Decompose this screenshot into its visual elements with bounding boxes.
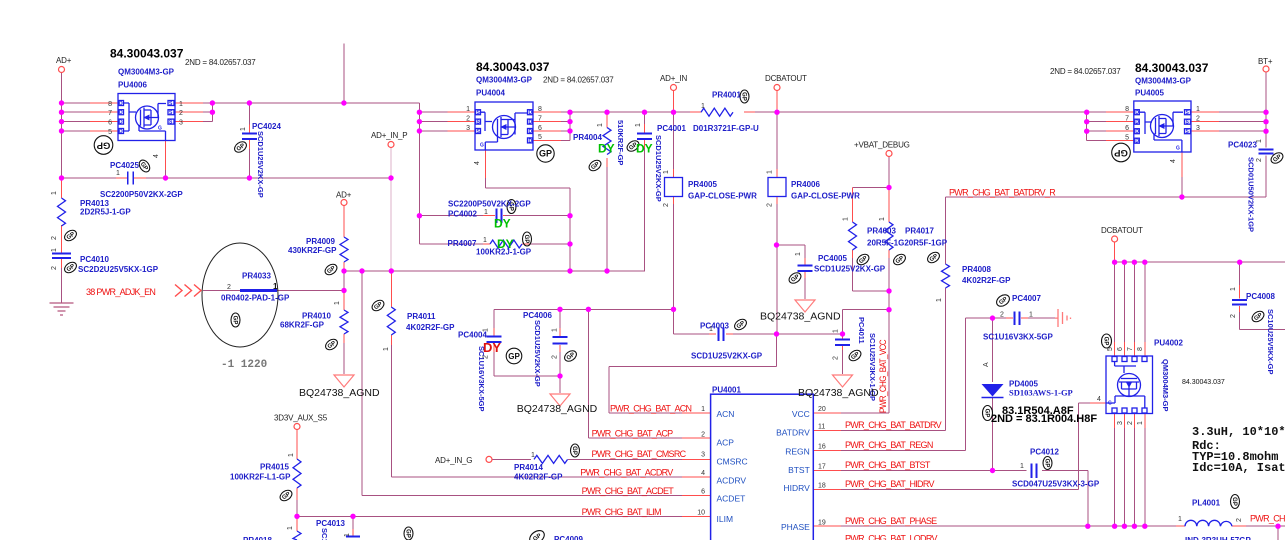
svg-text:D: D bbox=[529, 138, 533, 144]
port 3D3V_AUX_S5 bbox=[294, 424, 300, 430]
svg-text:PWR_CHG_BAT_ACDET: PWR_CHG_BAT_ACDET bbox=[582, 486, 675, 496]
svg-text:2: 2 bbox=[466, 115, 470, 122]
svg-text:6: 6 bbox=[538, 125, 542, 132]
svg-text:1: 1 bbox=[287, 526, 294, 530]
wire PC4005 branch bbox=[777, 245, 806, 299]
wire BATDRV_R rail bbox=[946, 196, 1267, 198]
stamp GP circle PC4004 bbox=[506, 348, 522, 364]
svg-text:GP: GP bbox=[741, 92, 747, 101]
svg-text:SCD1U25V2KX-GP: SCD1U25V2KX-GP bbox=[256, 131, 265, 198]
svg-text:3: 3 bbox=[701, 451, 705, 458]
svg-text:2: 2 bbox=[483, 355, 490, 359]
ground BQ24738_AGND under PC4005 bbox=[795, 300, 815, 312]
diode PD4005 bbox=[982, 384, 1004, 397]
wire PU4005 right rows bbox=[1191, 112, 1219, 131]
svg-text:PWR_CH: PWR_CH bbox=[1250, 514, 1285, 524]
svg-text:1: 1 bbox=[767, 170, 774, 174]
svg-text:D: D bbox=[529, 110, 533, 116]
svg-text:DY: DY bbox=[636, 142, 653, 156]
wire PU4006 left pin rows bbox=[62, 103, 91, 131]
svg-text:1: 1 bbox=[1178, 516, 1182, 523]
svg-text:PC4013: PC4013 bbox=[316, 519, 345, 528]
svg-text:GP: GP bbox=[984, 409, 990, 418]
wire PU4004 right stubs and tie bbox=[533, 112, 561, 140]
svg-text:BATDRV: BATDRV bbox=[776, 428, 810, 438]
svg-text:PWR_CHG_BAT_ILIM: PWR_CHG_BAT_ILIM bbox=[582, 507, 661, 517]
svg-text:BQ24738_AGND: BQ24738_AGND bbox=[517, 403, 598, 415]
S D G letters inside packages bbox=[119, 101, 1190, 407]
svg-text:PC4006: PC4006 bbox=[523, 311, 552, 320]
wire AD+_IN_P pale vertical bbox=[390, 148, 392, 272]
svg-text:3: 3 bbox=[179, 120, 183, 127]
svg-text:1: 1 bbox=[116, 170, 120, 177]
svg-text:PWR_CHG_BAT_ACN: PWR_CHG_BAT_ACN bbox=[610, 404, 692, 414]
svg-text:2ND = 84.02657.037: 2ND = 84.02657.037 bbox=[185, 58, 256, 67]
svg-text:7: 7 bbox=[538, 115, 542, 122]
svg-text:HIDRV: HIDRV bbox=[784, 483, 811, 493]
svg-text:7: 7 bbox=[1127, 347, 1134, 351]
wire PC4004/PC4006 top rail y309 bbox=[494, 308, 674, 310]
svg-text:68KR2F-GP: 68KR2F-GP bbox=[280, 321, 325, 330]
wire PR4013 PC4010 branch bbox=[61, 178, 63, 268]
port DCBATOUT bbox=[774, 85, 780, 91]
svg-text:SCD047U25V3KX-3-GP: SCD047U25V3KX-3-GP bbox=[1012, 480, 1100, 489]
svg-text:PR4008: PR4008 bbox=[962, 265, 991, 274]
wire PC4013 stub bbox=[352, 516, 354, 529]
wire CMSRC row bbox=[493, 458, 683, 460]
wire PHASE rail bbox=[813, 525, 841, 527]
wire gate rail y271 bbox=[344, 270, 645, 272]
svg-text:GP: GP bbox=[523, 235, 529, 244]
svg-text:PC4024: PC4024 bbox=[252, 122, 281, 131]
svg-text:GP: GP bbox=[1231, 497, 1237, 506]
svg-text:2: 2 bbox=[663, 203, 670, 207]
svg-text:PR4017: PR4017 bbox=[905, 227, 934, 236]
svg-text:A: A bbox=[983, 362, 990, 367]
svg-text:5: 5 bbox=[1125, 135, 1129, 142]
svg-text:GAP-CLOSE-PWR: GAP-CLOSE-PWR bbox=[688, 192, 757, 201]
ground earth GND left bbox=[50, 303, 74, 315]
svg-text:2: 2 bbox=[179, 110, 183, 117]
capacitor PC4003 bbox=[719, 328, 724, 342]
wire PR4010 to AGND bbox=[343, 291, 345, 344]
svg-text:PU4001: PU4001 bbox=[712, 386, 741, 395]
svg-text:2: 2 bbox=[552, 355, 559, 359]
svg-text:2D2R5J-1-GP: 2D2R5J-1-GP bbox=[80, 208, 131, 217]
svg-text:1: 1 bbox=[843, 217, 850, 221]
wire PC4024 branch bbox=[248, 103, 250, 178]
svg-text:PC4025: PC4025 bbox=[110, 161, 139, 170]
wire PR4007 row bbox=[419, 243, 570, 245]
stamp GP circle PU4004 bbox=[537, 145, 554, 162]
svg-text:GP: GP bbox=[539, 149, 552, 159]
svg-text:PR4011: PR4011 bbox=[407, 312, 436, 321]
svg-text:D: D bbox=[119, 129, 123, 135]
svg-text:1: 1 bbox=[833, 329, 840, 333]
svg-text:QM3004M3-GP: QM3004M3-GP bbox=[476, 76, 533, 85]
resistor PR4014 bbox=[534, 455, 568, 463]
svg-text:CMSRC: CMSRC bbox=[717, 457, 748, 467]
svg-text:2: 2 bbox=[833, 356, 840, 360]
transistor PU4005 package bbox=[1134, 101, 1191, 152]
svg-text:SCD1U25V2KX-GP: SCD1U25V2KX-GP bbox=[654, 135, 663, 202]
svg-text:IND-3R3UH-57GP: IND-3R3UH-57GP bbox=[1185, 536, 1251, 540]
svg-text:QM3004M3-GP: QM3004M3-GP bbox=[1161, 359, 1170, 412]
svg-text:DCBATOUT: DCBATOUT bbox=[1101, 226, 1143, 235]
wire BTST row bbox=[813, 470, 841, 472]
wire REGN path bbox=[813, 450, 841, 452]
svg-text:1: 1 bbox=[484, 209, 488, 216]
stamp GP circle PU4006 bbox=[94, 136, 113, 155]
svg-text:SCD1U25V2KX-GP: SCD1U25V2KX-GP bbox=[691, 352, 763, 361]
capacitor PC4007 bbox=[1015, 312, 1020, 326]
svg-text:2: 2 bbox=[1236, 518, 1243, 522]
svg-text:PR4001: PR4001 bbox=[712, 91, 741, 100]
svg-text:1: 1 bbox=[483, 237, 487, 244]
resistor PR4007 bbox=[490, 240, 522, 248]
svg-text:2: 2 bbox=[701, 431, 705, 438]
port +VBAT_DEBUG bbox=[886, 151, 892, 157]
svg-text:SC2200P50V2KX-2GP: SC2200P50V2KX-2GP bbox=[448, 200, 531, 209]
svg-text:2: 2 bbox=[51, 236, 58, 240]
svg-text:1: 1 bbox=[51, 191, 58, 195]
svg-text:GAP-CLOSE-PWR: GAP-CLOSE-PWR bbox=[791, 192, 860, 201]
svg-text:PR4033: PR4033 bbox=[242, 272, 271, 281]
svg-text:6: 6 bbox=[1117, 347, 1124, 351]
wire PWR_ADJK_EN row bbox=[203, 290, 344, 292]
svg-text:D: D bbox=[119, 110, 123, 116]
wire PC4006 branch bbox=[559, 309, 561, 393]
svg-text:AD+: AD+ bbox=[56, 56, 72, 65]
svg-text:GP: GP bbox=[405, 529, 411, 538]
svg-text:1: 1 bbox=[1137, 421, 1144, 425]
svg-text:18: 18 bbox=[818, 483, 826, 490]
svg-text:PR4005: PR4005 bbox=[688, 180, 717, 189]
svg-text:PU4005: PU4005 bbox=[1135, 89, 1164, 98]
ground BQ24738_AGND under PC4006 bbox=[550, 394, 570, 406]
wire PC4023 lower stub bbox=[1265, 156, 1267, 198]
svg-text:2: 2 bbox=[1196, 116, 1200, 123]
svg-text:1: 1 bbox=[1230, 287, 1237, 291]
resistor PR4018 partial bbox=[293, 531, 301, 540]
wire rail AD+ top y103 bbox=[212, 102, 419, 104]
svg-text:GP: GP bbox=[232, 316, 238, 325]
svg-text:D: D bbox=[119, 101, 123, 107]
port AD+ (mid) bbox=[341, 200, 347, 206]
svg-text:0R0402-PAD-1-GP: 0R0402-PAD-1-GP bbox=[221, 294, 290, 303]
wire ACDET riser and row bbox=[362, 271, 682, 495]
svg-text:BT+: BT+ bbox=[1258, 57, 1273, 66]
svg-text:PC4009: PC4009 bbox=[554, 535, 583, 540]
svg-text:1: 1 bbox=[466, 106, 470, 113]
svg-text:SC10U25V5KX-GP: SC10U25V5KX-GP bbox=[1266, 309, 1275, 374]
port AD+_IN_P bbox=[388, 142, 394, 148]
svg-text:PWR_CHG_BAT_BTST: PWR_CHG_BAT_BTST bbox=[845, 460, 931, 470]
svg-text:7: 7 bbox=[108, 110, 112, 117]
wire PU4006 right rows to tie bbox=[203, 103, 212, 122]
svg-text:D: D bbox=[1135, 110, 1139, 116]
svg-text:PC4023: PC4023 bbox=[1228, 141, 1257, 150]
svg-text:PR4006: PR4006 bbox=[791, 180, 820, 189]
svg-text:DY: DY bbox=[497, 237, 514, 251]
wire PC4011 to AGND bbox=[842, 337, 844, 350]
wire PR4003 branch bbox=[852, 188, 854, 259]
svg-text:PR4003: PR4003 bbox=[867, 227, 896, 236]
wire PU4006 gate stub bbox=[165, 141, 167, 171]
svg-text:PR4015: PR4015 bbox=[260, 463, 289, 472]
wire PU4006 right pin stubs bbox=[175, 103, 203, 122]
svg-text:DY: DY bbox=[494, 217, 511, 231]
svg-text:2ND = 84.02657.037: 2ND = 84.02657.037 bbox=[1050, 67, 1121, 76]
svg-text:2ND = 83.1R004.H8F: 2ND = 83.1R004.H8F bbox=[991, 413, 1097, 425]
svg-text:BTST: BTST bbox=[788, 465, 810, 475]
wire PC4011 link y309 bbox=[843, 310, 890, 337]
wire DCBATOUT / PR4006 branch bbox=[776, 91, 778, 205]
capacitor PC4013 partial bbox=[346, 536, 360, 538]
svg-text:PC4003: PC4003 bbox=[700, 322, 729, 331]
svg-text:4K02R2F-GP: 4K02R2F-GP bbox=[962, 276, 1011, 285]
svg-text:1: 1 bbox=[709, 326, 713, 333]
svg-text:G: G bbox=[480, 143, 484, 149]
svg-text:8: 8 bbox=[108, 101, 112, 108]
svg-text:430KR2F-GP: 430KR2F-GP bbox=[288, 246, 337, 255]
svg-text:1: 1 bbox=[179, 101, 183, 108]
svg-text:ACDET: ACDET bbox=[717, 494, 746, 504]
pin numbers PU4004 bbox=[466, 106, 470, 132]
resistor PR4003 bbox=[849, 222, 857, 250]
wire PC4002 row bbox=[419, 215, 570, 217]
capacitor PC4023 bbox=[1259, 150, 1274, 154]
svg-text:ACDRV: ACDRV bbox=[717, 476, 747, 486]
svg-text:VCC: VCC bbox=[792, 409, 810, 419]
port AD+_IN_G bbox=[486, 456, 492, 462]
svg-text:1: 1 bbox=[531, 452, 535, 459]
svg-text:4: 4 bbox=[153, 154, 160, 158]
wire ILIM row bbox=[297, 515, 682, 517]
wire PR4004 branch bbox=[606, 112, 608, 167]
svg-text:3: 3 bbox=[466, 125, 470, 132]
pin numbers PU4005 bbox=[1125, 106, 1129, 142]
svg-text:+VBAT_DEBUG: +VBAT_DEBUG bbox=[854, 141, 910, 150]
svg-text:PR4009: PR4009 bbox=[306, 237, 335, 246]
rotated pin 1/2 labels for passives bbox=[51, 103, 1263, 537]
svg-text:1: 1 bbox=[288, 453, 295, 457]
svg-text:PR4010: PR4010 bbox=[302, 312, 331, 321]
svg-text:DY: DY bbox=[598, 142, 615, 156]
svg-text:1: 1 bbox=[1256, 139, 1263, 143]
wire PU4004 left pin rows bbox=[419, 112, 447, 131]
wire PC4001 branch bbox=[644, 112, 647, 271]
resistor PR4010 bbox=[340, 310, 348, 334]
ground BQ24738_AGND under PC4011 bbox=[833, 375, 853, 387]
port DCBATOUT (right) bbox=[1112, 236, 1118, 242]
capacitor PC4001 bbox=[637, 134, 652, 140]
capacitor PC4010 bbox=[52, 254, 71, 259]
wire PU4005 left rows bbox=[1087, 112, 1106, 141]
svg-text:SCD1U25V2KX-GP: SCD1U25V2KX-GP bbox=[533, 320, 542, 387]
svg-text:1: 1 bbox=[701, 103, 705, 110]
svg-text:PWR_CHG_BAT_ACP: PWR_CHG_BAT_ACP bbox=[592, 429, 674, 439]
wire DCBATOUT2 drop bbox=[1114, 242, 1116, 262]
resistor PR4008 bbox=[942, 264, 950, 288]
ground chassis at PC4007 bbox=[1055, 309, 1071, 327]
capacitor PC4005 bbox=[798, 266, 813, 272]
svg-text:SC1: SC1 bbox=[320, 528, 329, 540]
svg-text:5: 5 bbox=[108, 129, 112, 136]
wire PU4002 source drops bbox=[1115, 414, 1145, 429]
svg-text:AD+_IN_G: AD+_IN_G bbox=[435, 456, 472, 465]
stamp GP circle PU4005 bbox=[1112, 143, 1131, 162]
wire BT+ drop bbox=[1265, 72, 1267, 148]
capacitor PC4012 bbox=[1032, 464, 1037, 479]
resistor PR4001 bbox=[701, 108, 733, 116]
svg-text:D: D bbox=[1135, 139, 1139, 145]
wire main rail y112 with PR4001 bbox=[570, 111, 1087, 113]
wire PR4008 / BATDRV riser bbox=[841, 197, 946, 431]
svg-text:4: 4 bbox=[1170, 159, 1177, 163]
svg-text:PWR_CHG_BAT_VCC: PWR_CHG_BAT_VCC bbox=[878, 339, 888, 413]
wire PR4011 branch to ACDRV bbox=[390, 271, 392, 345]
svg-text:1: 1 bbox=[635, 123, 642, 127]
svg-text:PU4006: PU4006 bbox=[118, 81, 147, 90]
capacitor PC4002 bbox=[497, 209, 502, 224]
svg-text:1: 1 bbox=[1196, 106, 1200, 113]
transistor PU4004 package bbox=[475, 102, 533, 150]
svg-text:PWR_CHG_BAT_BATDRV: PWR_CHG_BAT_BATDRV bbox=[845, 420, 942, 430]
svg-text:D01R3721F-GP-U: D01R3721F-GP-U bbox=[693, 124, 759, 133]
wire AD+_IN / PR4005 branch bbox=[673, 91, 675, 205]
svg-text:3.3uH, 10*10*: 3.3uH, 10*10* bbox=[1192, 425, 1285, 439]
svg-text:5: 5 bbox=[1107, 347, 1114, 351]
wire VBAT_DEBUG bbox=[853, 157, 890, 188]
svg-text:8: 8 bbox=[538, 106, 542, 113]
wire PU4004 gate path bbox=[484, 150, 486, 178]
svg-text:2: 2 bbox=[51, 266, 58, 270]
svg-text:84.30043.037: 84.30043.037 bbox=[110, 47, 184, 61]
svg-text:1: 1 bbox=[795, 252, 802, 256]
op-amp U1 PU4001 charger IC box bbox=[711, 394, 814, 540]
svg-text:84.30043.037: 84.30043.037 bbox=[476, 60, 550, 74]
ground BQ24738_AGND under PR4010 bbox=[334, 375, 354, 387]
svg-text:6: 6 bbox=[108, 120, 112, 127]
wire top stub x344 bbox=[343, 44, 345, 103]
resistor PR4033 0-ohm pad bbox=[240, 289, 277, 292]
svg-text:2: 2 bbox=[1230, 314, 1237, 318]
svg-text:PC4005: PC4005 bbox=[818, 254, 847, 263]
pin numbers PU4002 bbox=[1107, 347, 1144, 351]
svg-text:2ND = 84.02657.037: 2ND = 84.02657.037 bbox=[543, 76, 614, 85]
port BT+ bbox=[1263, 66, 1269, 72]
svg-text:D: D bbox=[1135, 129, 1139, 135]
svg-text:D: D bbox=[529, 129, 533, 135]
resistor PR4006 gap-close bbox=[768, 178, 786, 197]
svg-text:100KR2F-L1-GP: 100KR2F-L1-GP bbox=[230, 473, 291, 482]
svg-text:-1 1220: -1 1220 bbox=[221, 359, 267, 371]
svg-text:7: 7 bbox=[1125, 116, 1129, 123]
svg-text:D: D bbox=[529, 120, 533, 126]
svg-text:D: D bbox=[1135, 120, 1139, 126]
resistor PR4015 bbox=[293, 459, 301, 488]
svg-text:PHASE: PHASE bbox=[781, 522, 810, 532]
svg-text:1: 1 bbox=[597, 123, 604, 127]
capacitor PC4006 bbox=[553, 337, 568, 344]
wire PC4004 branch bbox=[493, 309, 495, 376]
wire PC4003 row y334 bbox=[674, 333, 843, 335]
svg-text:PC4011: PC4011 bbox=[857, 317, 866, 344]
svg-text:84.30043.037: 84.30043.037 bbox=[1135, 61, 1209, 75]
svg-text:510KR2F-GP: 510KR2F-GP bbox=[616, 120, 625, 165]
svg-text:PC4002: PC4002 bbox=[448, 210, 477, 219]
svg-text:ILIM: ILIM bbox=[717, 514, 734, 524]
wire x419 vertical bbox=[418, 103, 420, 244]
svg-text:G: G bbox=[1176, 146, 1180, 152]
transistor PU4006 package bbox=[118, 94, 175, 141]
svg-text:GP: GP bbox=[508, 352, 520, 361]
resistor PR4009 bbox=[340, 237, 348, 262]
svg-text:PC4008: PC4008 bbox=[1246, 292, 1275, 301]
wire DCBATOUT rail y262 bbox=[1115, 261, 1285, 263]
wire PC4008 branch bbox=[1240, 262, 1285, 329]
svg-text:1: 1 bbox=[1020, 463, 1024, 470]
svg-text:1: 1 bbox=[273, 282, 278, 291]
svg-text:PWR_CHG_BAT_BATDRV_R: PWR_CHG_BAT_BATDRV_R bbox=[949, 188, 1056, 198]
svg-text:PWR_CHG_BAT_LODRV: PWR_CHG_BAT_LODRV bbox=[845, 534, 937, 540]
svg-text:BQ24738_AGND: BQ24738_AGND bbox=[299, 387, 380, 399]
svg-text:17: 17 bbox=[818, 463, 826, 470]
svg-text:1: 1 bbox=[240, 127, 247, 131]
svg-text:1: 1 bbox=[701, 406, 705, 413]
svg-text:PC4010: PC4010 bbox=[80, 255, 109, 264]
svg-text:1: 1 bbox=[663, 170, 670, 174]
wire PU4002 drain drops bbox=[1115, 262, 1145, 342]
svg-text:1: 1 bbox=[334, 301, 341, 305]
svg-text:1: 1 bbox=[879, 217, 886, 221]
svg-text:AD+_IN: AD+_IN bbox=[660, 74, 687, 83]
svg-text:PU4004: PU4004 bbox=[476, 89, 505, 98]
svg-text:D: D bbox=[119, 120, 123, 126]
svg-text:6: 6 bbox=[1125, 125, 1129, 132]
svg-text:4: 4 bbox=[1097, 396, 1101, 403]
transistor PU4002 package bbox=[1106, 356, 1153, 414]
capacitor PC4024 bbox=[242, 134, 257, 140]
svg-text:1: 1 bbox=[936, 298, 943, 302]
svg-text:2: 2 bbox=[767, 203, 774, 207]
svg-text:REGN: REGN bbox=[785, 447, 810, 457]
wire ACP riser bbox=[588, 309, 682, 438]
svg-text:3: 3 bbox=[1196, 125, 1200, 132]
svg-text:ACN: ACN bbox=[717, 409, 735, 419]
svg-text:4K02R2F-GP: 4K02R2F-GP bbox=[406, 323, 455, 332]
svg-text:SCD01U50V2KX-1GP: SCD01U50V2KX-1GP bbox=[1247, 157, 1256, 232]
svg-text:8: 8 bbox=[1125, 106, 1129, 113]
inductor PL4001 bbox=[1185, 520, 1232, 526]
svg-text:G: G bbox=[1108, 401, 1112, 407]
node PR4033 highlight ellipse bbox=[202, 243, 278, 347]
port AD+ (top left) bbox=[59, 67, 65, 73]
svg-text:11: 11 bbox=[818, 424, 825, 431]
svg-text:2: 2 bbox=[1127, 421, 1134, 425]
svg-text:PWR_CHG_BAT_HIDRV: PWR_CHG_BAT_HIDRV bbox=[845, 479, 934, 489]
svg-text:SC1U16V3KX-5GP: SC1U16V3KX-5GP bbox=[983, 333, 1053, 342]
svg-text:20R5F-1G20R5F-1GP: 20R5F-1G20R5F-1GP bbox=[867, 239, 948, 248]
svg-text:84.30043.037: 84.30043.037 bbox=[1182, 379, 1225, 386]
svg-text:GP: GP bbox=[1044, 459, 1050, 468]
svg-text:PR4014: PR4014 bbox=[514, 463, 543, 472]
wire AD+ left vertical bbox=[61, 73, 63, 179]
svg-text:QM3004M3-GP: QM3004M3-GP bbox=[1135, 77, 1192, 86]
small stamps (rotated GP ovals) bbox=[63, 90, 1285, 540]
svg-text:PL4001: PL4001 bbox=[1192, 499, 1221, 508]
